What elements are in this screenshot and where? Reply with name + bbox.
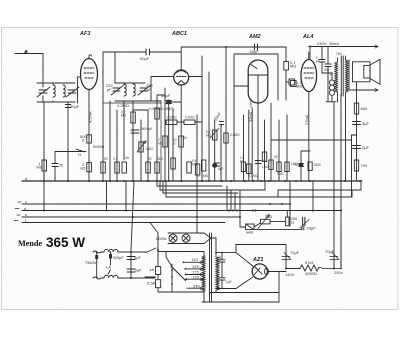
svg-text:MΩ: MΩ <box>121 114 127 118</box>
svg-text:(0,5MΩ): (0,5MΩ) <box>160 106 175 111</box>
svg-text:kΩ: kΩ <box>81 166 86 171</box>
svg-text:700: 700 <box>361 163 368 168</box>
svg-text:60/5A: 60/5A <box>156 236 167 241</box>
svg-text:MΩ: MΩ <box>158 142 164 146</box>
svg-text:wkb: wkb <box>246 230 254 235</box>
svg-text:AZ1: AZ1 <box>252 257 263 263</box>
svg-text:75kHz: 75kHz <box>85 260 96 265</box>
svg-text:300pF: 300pF <box>113 255 125 260</box>
svg-text:kΩ: kΩ <box>240 160 245 164</box>
svg-text:AF3: AF3 <box>79 31 90 37</box>
svg-text:500: 500 <box>324 68 330 72</box>
svg-text:110: 110 <box>192 257 199 262</box>
svg-text:Mende: Mende <box>18 239 42 248</box>
svg-text:1A: 1A <box>149 267 154 272</box>
svg-text:1MΩ: 1MΩ <box>262 165 269 169</box>
svg-text:μF: μF <box>316 59 320 63</box>
svg-text:230V- 30mA: 230V- 30mA <box>317 41 339 46</box>
svg-text:365 W: 365 W <box>46 235 85 250</box>
svg-text:1μF: 1μF <box>218 255 222 261</box>
svg-text:1μF: 1μF <box>226 280 232 284</box>
svg-text:250v: 250v <box>334 270 343 275</box>
svg-text:50: 50 <box>262 159 266 163</box>
svg-text:140V: 140V <box>285 272 295 277</box>
svg-text:30: 30 <box>274 155 278 159</box>
svg-text:5kΩ: 5kΩ <box>265 214 272 219</box>
svg-text:0MΩ: 0MΩ <box>277 172 284 176</box>
svg-text:50μF: 50μF <box>140 56 150 61</box>
svg-text:MΩ: MΩ <box>37 165 43 170</box>
svg-text:27mA: 27mA <box>304 114 309 125</box>
svg-text:660: 660 <box>361 106 368 111</box>
svg-text:2μF: 2μF <box>362 145 370 150</box>
svg-text:MΩ: MΩ <box>206 134 212 138</box>
svg-text:5 kΩ: 5 kΩ <box>305 260 313 265</box>
svg-text:0,1: 0,1 <box>113 157 118 161</box>
svg-text:pF: pF <box>330 72 334 76</box>
svg-text:AL4: AL4 <box>302 34 313 40</box>
svg-text:N: N <box>78 152 81 157</box>
svg-text:25: 25 <box>59 163 64 168</box>
svg-text:MΩ: MΩ <box>290 64 296 69</box>
svg-text:50μF: 50μF <box>70 104 80 109</box>
svg-text:50000: 50000 <box>93 144 105 149</box>
svg-text:220: 220 <box>193 274 200 279</box>
svg-text:Ω: Ω <box>291 220 294 225</box>
svg-text:4μF: 4μF <box>218 167 224 171</box>
svg-text:1: 1 <box>198 174 200 178</box>
svg-text:Ω: Ω <box>82 138 85 143</box>
svg-text:50: 50 <box>148 157 152 161</box>
svg-text:70μF: 70μF <box>290 250 300 255</box>
svg-text:50: 50 <box>104 157 108 161</box>
svg-text:1500: 1500 <box>314 163 321 167</box>
svg-text:2kΩ: 2kΩ <box>157 157 163 161</box>
svg-text:50pF: 50pF <box>250 49 260 54</box>
svg-text:ABC1: ABC1 <box>171 31 187 37</box>
svg-text:7kΩ: 7kΩ <box>336 52 342 56</box>
svg-text:4,5mA: 4,5mA <box>88 111 93 123</box>
svg-text:0,2MΩ: 0,2MΩ <box>230 133 240 137</box>
svg-text:0,2MΩ: 0,2MΩ <box>117 103 129 108</box>
svg-text:LA: LA <box>106 265 111 270</box>
svg-text:70μF: 70μF <box>325 249 335 254</box>
svg-text:0,5A: 0,5A <box>147 281 156 286</box>
svg-text:50μF: 50μF <box>161 93 171 98</box>
svg-text:c: c <box>25 199 27 204</box>
svg-text:5μF: 5μF <box>135 268 143 273</box>
svg-text:15000pF: 15000pF <box>140 127 153 131</box>
svg-text:3μF: 3μF <box>362 121 370 126</box>
svg-text:MΩ: MΩ <box>203 174 209 178</box>
svg-text:33mA: 33mA <box>248 111 253 122</box>
svg-text:0,1: 0,1 <box>248 174 253 178</box>
svg-text:50: 50 <box>183 136 187 140</box>
svg-text:240: 240 <box>193 283 200 288</box>
svg-text:0,1MΩ: 0,1MΩ <box>167 116 177 120</box>
svg-text:4,5mA: 4,5mA <box>249 98 253 108</box>
svg-text:MΩ: MΩ <box>253 174 259 178</box>
svg-text:MΩ: MΩ <box>192 163 198 167</box>
svg-text:AM2: AM2 <box>248 34 261 40</box>
svg-text:50: 50 <box>295 163 299 167</box>
svg-text:0,1MΩ: 0,1MΩ <box>185 116 195 120</box>
svg-text:0,05MΩ: 0,05MΩ <box>149 107 161 111</box>
svg-text:4000Ω: 4000Ω <box>305 271 317 276</box>
svg-text:μF: μF <box>147 87 152 92</box>
svg-text:MΩ: MΩ <box>296 84 302 89</box>
svg-text:1MΩ: 1MΩ <box>146 147 153 151</box>
svg-text:pF: pF <box>107 87 112 92</box>
svg-text:20μF: 20μF <box>307 226 317 231</box>
svg-text:125: 125 <box>192 264 199 269</box>
svg-text:4μF: 4μF <box>134 255 142 260</box>
